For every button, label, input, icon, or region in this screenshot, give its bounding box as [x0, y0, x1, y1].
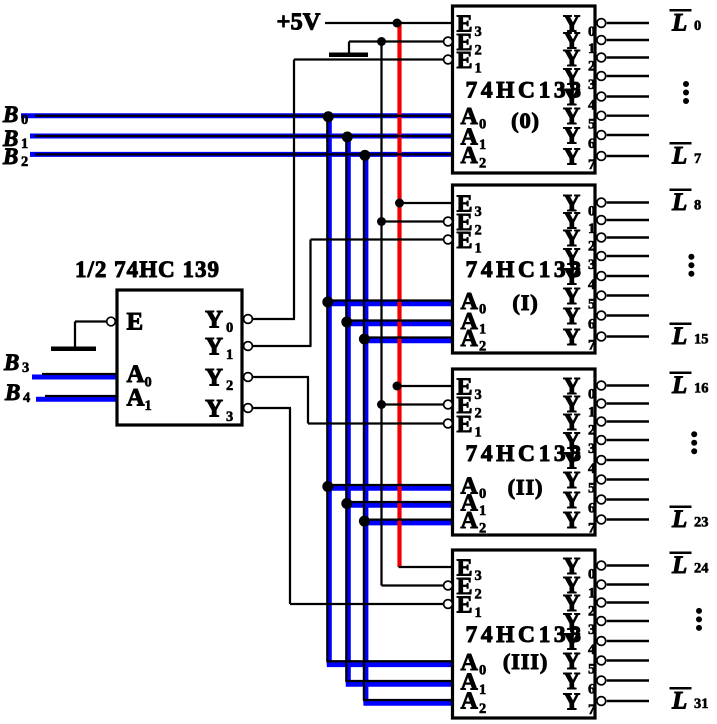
- wire ground stub (top): [348, 42, 350, 54]
- svg-text:31: 31: [694, 696, 709, 712]
- svg-text:2: 2: [21, 154, 28, 170]
- svg-text:2: 2: [475, 587, 482, 603]
- node B1 branch chip II junction: [341, 498, 352, 509]
- wire B0 black core branch chip I: [326, 299, 452, 301]
- svg-text:L: L: [671, 372, 687, 399]
- svg-text:5: 5: [588, 662, 595, 678]
- wire B4 black core: [45, 395, 117, 397]
- svg-text:5: 5: [588, 117, 595, 133]
- svg-text:E: E: [457, 228, 473, 254]
- wire B1 vertical riser (blue): [346, 134, 351, 684]
- IC U4 74HC138 (III): [453, 550, 596, 718]
- svg-text:E: E: [457, 412, 473, 438]
- wire B2 black core riser: [363, 154, 365, 700]
- ground symbol (top): [329, 53, 368, 58]
- svg-text:1: 1: [479, 503, 486, 519]
- svg-text:1: 1: [21, 136, 28, 152]
- svg-text:4: 4: [588, 98, 595, 114]
- wire B0 black core riser: [326, 116, 328, 662]
- svg-text:Y: Y: [205, 396, 223, 423]
- wire E input of 74HC139: [75, 320, 107, 322]
- svg-text:2: 2: [479, 339, 486, 355]
- wire B3 (blue): [32, 375, 117, 380]
- node B0 riser top junction: [323, 111, 334, 122]
- svg-text:0: 0: [145, 375, 152, 391]
- wire B2 black core horizontal: [35, 153, 453, 155]
- ellipsis dots: [688, 254, 694, 260]
- wire red bus end to E3 of 74HC138(III): [399, 566, 453, 568]
- pin E2 label + bubble: [444, 37, 453, 46]
- wire E2 bus branch to 74HC138(II): [382, 403, 444, 405]
- svg-text:E: E: [457, 48, 473, 74]
- svg-text:2: 2: [479, 521, 486, 537]
- wire B0 black core branch chip III: [326, 660, 452, 662]
- wire B1 black core horizontal: [35, 135, 453, 137]
- svg-text:L: L: [671, 142, 687, 169]
- IC U3 74HC138 (II): [453, 369, 596, 535]
- svg-text:Y: Y: [205, 307, 223, 334]
- svg-text:3: 3: [588, 77, 595, 93]
- wire E2 ground bus vertical: [380, 42, 382, 586]
- svg-text:0: 0: [226, 320, 233, 336]
- svg-text:1: 1: [475, 241, 482, 257]
- svg-text:0: 0: [479, 662, 486, 678]
- svg-text:0: 0: [479, 117, 486, 133]
- svg-text:3: 3: [588, 257, 595, 273]
- wire B1 branch to chip II (blue): [346, 503, 453, 508]
- svg-text:1: 1: [475, 605, 482, 621]
- node B1 riser top junction: [342, 132, 353, 143]
- IC U1 74HC138 (0): [453, 6, 596, 173]
- svg-text:1: 1: [479, 322, 486, 338]
- wire B0 vertical riser (blue): [327, 114, 332, 665]
- svg-text:L: L: [671, 9, 687, 36]
- pin E1 label + bubble: [444, 55, 453, 64]
- node B2 riser top junction: [359, 150, 370, 161]
- svg-text:Y: Y: [563, 508, 580, 534]
- node B2 branch chip I junction: [359, 334, 370, 345]
- pin E1 label + bubble: [444, 600, 453, 609]
- svg-text:2: 2: [475, 223, 482, 239]
- pin E label + bubble: [107, 317, 116, 326]
- pin E2 label + bubble: [444, 217, 453, 226]
- node +5V / red bus junction: [393, 19, 402, 28]
- wire E2 bus end to 74HC138(III): [382, 584, 444, 586]
- svg-text:E: E: [457, 593, 473, 619]
- svg-text:3: 3: [22, 360, 29, 376]
- svg-text:0: 0: [588, 204, 595, 220]
- wire E2 bus branch to 74HC138(I): [382, 220, 444, 222]
- svg-text:(III): (III): [503, 649, 548, 674]
- wire B3 black core: [42, 373, 117, 375]
- wire B2 branch to chip II (blue): [363, 520, 452, 525]
- svg-text:2: 2: [226, 378, 233, 394]
- svg-text:4: 4: [588, 642, 595, 658]
- svg-text:3: 3: [588, 441, 595, 457]
- wire E ground stub: [74, 322, 76, 348]
- svg-text:0: 0: [588, 24, 595, 40]
- svg-text:1: 1: [145, 398, 152, 414]
- node E2 bus top junction: [377, 37, 386, 46]
- svg-text:B: B: [4, 380, 20, 405]
- wire B2 black core branch chip I: [363, 336, 453, 338]
- svg-text:16: 16: [694, 380, 709, 396]
- wire +5V to E3 of 74HC138(0): [325, 22, 453, 24]
- wire Y2 to E1 of 74HC138(II): [308, 422, 444, 424]
- pin E2 label + bubble: [444, 581, 453, 590]
- svg-text:7: 7: [588, 338, 595, 354]
- svg-text:1: 1: [588, 221, 595, 237]
- svg-text:1: 1: [479, 682, 486, 698]
- wire B1 branch to chip III (blue): [346, 682, 453, 687]
- wire Y0 riser: [293, 60, 295, 320]
- svg-text:4: 4: [23, 390, 30, 406]
- wire Y3 to E1 of 74HC138(III): [290, 603, 444, 605]
- wire B0 black core horizontal: [35, 115, 453, 117]
- wire B1 black core branch chip III: [345, 680, 452, 682]
- wire B0 black core branch chip II: [326, 484, 452, 486]
- wire +5V red bus vertical: [397, 21, 401, 567]
- wire B0 branch to chip II (blue): [327, 486, 453, 491]
- node B0 branch chip II junction: [322, 481, 333, 492]
- svg-text:L: L: [671, 323, 687, 350]
- svg-text:A: A: [461, 508, 479, 534]
- wire Y0 to E1 of 74HC138(0): [294, 58, 444, 60]
- svg-text:6: 6: [588, 682, 595, 698]
- svg-text:3: 3: [475, 204, 482, 220]
- svg-text:1: 1: [588, 41, 595, 57]
- svg-text:+5V: +5V: [277, 9, 321, 36]
- ellipsis dots: [683, 81, 689, 87]
- svg-text:B: B: [2, 144, 18, 169]
- svg-text:Y: Y: [205, 365, 223, 392]
- svg-text:L: L: [671, 552, 687, 579]
- wire red bus branch to E3 of 74HC138(II): [398, 385, 453, 387]
- wire 74HC139 Y0 output: [252, 318, 295, 320]
- wire B1 black core branch chip II: [345, 501, 452, 503]
- svg-text:(0): (0): [511, 108, 540, 133]
- svg-text:0: 0: [588, 567, 595, 583]
- ground symbol (74HC139): [51, 347, 96, 352]
- pin E2 label + bubble: [444, 400, 453, 409]
- svg-text:6: 6: [588, 501, 595, 517]
- svg-text:2: 2: [588, 604, 595, 620]
- svg-text:7: 7: [588, 157, 595, 173]
- wire 74HC139 Y2 output: [252, 376, 309, 378]
- node E2 bus / E2(I) junction: [377, 217, 386, 226]
- svg-text:E: E: [127, 309, 144, 336]
- svg-text:3: 3: [588, 622, 595, 638]
- wire B1 horizontal bus: [30, 134, 453, 139]
- svg-text:1/2 74HC 139: 1/2 74HC 139: [75, 257, 219, 282]
- wire Y3 riser: [289, 408, 291, 604]
- svg-text:4: 4: [588, 461, 595, 477]
- node red bus / E3(I) junction: [395, 199, 404, 208]
- pin E1 label + bubble: [444, 235, 453, 244]
- svg-text:24: 24: [694, 560, 709, 576]
- svg-text:0: 0: [479, 302, 486, 318]
- svg-text:(I): (I): [512, 290, 538, 315]
- svg-text:Y: Y: [205, 334, 223, 361]
- svg-text:A: A: [127, 385, 145, 412]
- svg-text:6: 6: [588, 136, 595, 152]
- IC U2 74HC138 (I): [453, 185, 596, 353]
- svg-text:2: 2: [475, 406, 482, 422]
- svg-text:1: 1: [475, 61, 482, 77]
- ellipsis dots: [696, 608, 702, 614]
- wire B1 black core branch chip I: [345, 319, 452, 321]
- svg-text:2: 2: [475, 43, 482, 59]
- node red bus / E3(II) junction: [393, 382, 402, 391]
- svg-text:3: 3: [475, 568, 482, 584]
- svg-text:1: 1: [588, 586, 595, 602]
- wire B2 branch to chip I (blue): [363, 338, 452, 343]
- svg-text:Y: Y: [563, 145, 580, 171]
- wire B2 black core branch chip II: [363, 518, 453, 520]
- svg-text:L: L: [671, 506, 687, 533]
- wire B2 vertical riser (blue): [363, 152, 368, 703]
- wire B1 branch to chip I (blue): [346, 321, 453, 326]
- svg-text:2: 2: [588, 423, 595, 439]
- wire B0 branch to chip III (blue): [327, 662, 453, 667]
- wire B0 horizontal bus: [21, 113, 453, 118]
- wire B2 horizontal bus: [30, 152, 453, 157]
- svg-text:2: 2: [588, 59, 595, 75]
- svg-text:5: 5: [588, 481, 595, 497]
- svg-text:A: A: [461, 143, 479, 169]
- svg-text:A: A: [461, 689, 479, 715]
- ellipsis dots: [691, 431, 697, 437]
- svg-text:0: 0: [21, 112, 28, 128]
- svg-text:2: 2: [479, 155, 486, 171]
- svg-text:Y: Y: [563, 325, 580, 351]
- svg-text:A: A: [461, 326, 479, 352]
- svg-text:4: 4: [588, 277, 595, 293]
- svg-text:1: 1: [588, 405, 595, 421]
- svg-text:(II): (II): [508, 475, 544, 500]
- node B0 branch chip I junction: [322, 297, 333, 308]
- svg-text:0: 0: [479, 486, 486, 502]
- svg-text:3: 3: [475, 387, 482, 403]
- wire Y2 riser: [307, 377, 309, 424]
- svg-text:L: L: [671, 189, 687, 216]
- wire B1 black core riser: [345, 136, 347, 681]
- wire ground to E2 of 74HC138(0): [349, 40, 444, 42]
- svg-text:23: 23: [694, 514, 709, 530]
- svg-text:5: 5: [588, 297, 595, 313]
- wire red bus branch to E3 of 74HC138(I): [400, 202, 453, 204]
- svg-text:1: 1: [475, 425, 482, 441]
- node E2 bus / E2(II) junction: [377, 400, 386, 409]
- wire B2 branch to chip III (blue): [363, 701, 452, 706]
- svg-text:Y: Y: [563, 690, 580, 716]
- svg-text:L: L: [671, 687, 687, 714]
- svg-text:7: 7: [588, 521, 595, 537]
- svg-text:2: 2: [588, 239, 595, 255]
- svg-text:15: 15: [694, 331, 709, 347]
- svg-text:2: 2: [479, 701, 486, 717]
- svg-text:3: 3: [475, 24, 482, 40]
- wire 74HC139 Y1 output: [252, 345, 311, 347]
- svg-text:B: B: [2, 102, 18, 127]
- pin E1 label + bubble: [444, 419, 453, 428]
- svg-text:8: 8: [694, 197, 701, 213]
- svg-text:0: 0: [694, 18, 701, 34]
- svg-text:3: 3: [226, 409, 233, 425]
- node B1 branch chip I junction: [341, 317, 352, 328]
- wire B0 branch to chip I (blue): [327, 301, 453, 306]
- svg-text:6: 6: [588, 317, 595, 333]
- svg-text:7: 7: [694, 151, 701, 167]
- wire Y1 to E1 of 74HC138(I): [311, 238, 444, 240]
- svg-text:1: 1: [226, 347, 233, 363]
- svg-text:1: 1: [479, 137, 486, 153]
- wire 74HC139 Y3 output: [252, 407, 291, 409]
- svg-text:B: B: [3, 350, 19, 375]
- wire B4 (blue): [36, 397, 117, 402]
- wire B2 black core branch chip III: [363, 699, 453, 701]
- svg-text:0: 0: [588, 387, 595, 403]
- IC U5 1/2 74HC139: [117, 290, 242, 425]
- svg-text:7: 7: [588, 702, 595, 718]
- node B2 branch chip II junction: [359, 516, 370, 527]
- wire Y1 riser: [309, 240, 311, 347]
